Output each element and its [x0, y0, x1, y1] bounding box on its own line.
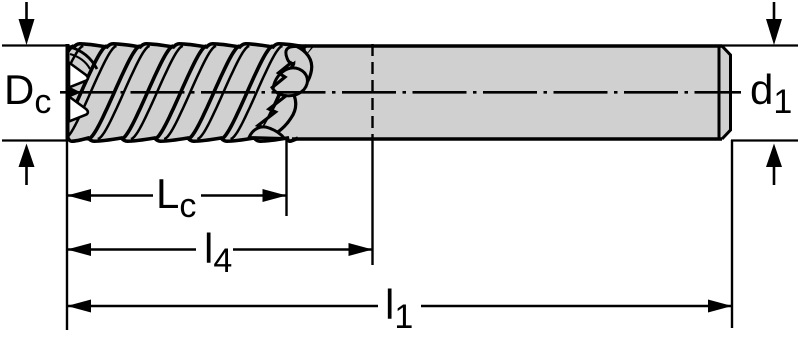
- l4 extension line below body: [371, 139, 373, 265]
- end tooth notch lower: [69, 97, 88, 122]
- top-left diameter extent line: [2, 44, 66, 46]
- end tooth hook arc inner top-left: [70, 54, 90, 69]
- flute zone wavy top edge: [68, 44, 306, 47]
- top-right down arrow: [773, 2, 776, 24]
- bottom-left up arrow: [25, 162, 28, 185]
- l4 dimension line: [67, 248, 196, 251]
- cutter left face: [66, 44, 70, 141]
- flute run-out petal top (rounded quad below top edge): [286, 47, 305, 64]
- svg-text:l1: l1: [385, 281, 413, 336]
- Lc right extension line: [285, 139, 287, 216]
- flute run-out mid petal: [273, 68, 307, 96]
- center line (dash-dot axis): [60, 91, 741, 94]
- l1 dimension line: [67, 305, 378, 308]
- svg-text:d1: d1: [750, 66, 792, 121]
- flute run-out arc lower: [268, 95, 296, 138]
- bottom-right up arrow: [773, 162, 776, 185]
- l1 right extension line: [731, 140, 733, 328]
- end tooth dark wedge at centerline: [68, 86, 81, 98]
- shank end outer contour with chamfer: [722, 46, 731, 139]
- flute run-out zigzag upper: [271, 62, 292, 89]
- svg-text:l4: l4: [204, 225, 232, 280]
- left extension line (all dims): [66, 140, 68, 330]
- svg-text:Dc: Dc: [4, 66, 51, 121]
- shank bottom edge: [292, 137, 722, 140]
- bottom-right diameter extent line: [731, 139, 798, 141]
- flute run-out zigzag lower: [251, 95, 287, 138]
- cutter body (shank): [68, 46, 731, 139]
- flute run-out bottom petal: [249, 127, 285, 139]
- top-right diameter extent line: [722, 44, 798, 46]
- shank end face inner line: [718, 46, 721, 139]
- flutes (helical cutting edges): [22, 46, 316, 139]
- flute zone wavy bottom edge: [68, 138, 298, 141]
- svg-text:Lc: Lc: [156, 170, 196, 225]
- Lc dimension line: [67, 194, 153, 197]
- top-left down arrow: [25, 2, 28, 24]
- l4 dashed line through body: [371, 44, 373, 139]
- end tooth notch upper: [69, 63, 88, 88]
- shank top edge: [298, 44, 722, 47]
- flute run-out big arc upper: [294, 46, 312, 95]
- end tooth hook arc outer top-left: [70, 47, 97, 69]
- bottom-left diameter extent line: [2, 139, 66, 141]
